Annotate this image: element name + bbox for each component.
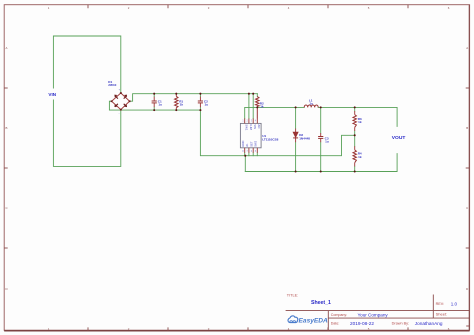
svg-text:B: B: [466, 126, 468, 130]
svg-text:2W10: 2W10: [108, 83, 116, 87]
svg-text:Your Company: Your Company: [358, 312, 389, 317]
svg-text:C: C: [466, 206, 468, 210]
svg-text:1u: 1u: [205, 103, 209, 107]
svg-text:1k: 1k: [358, 120, 362, 124]
svg-text:1k: 1k: [358, 155, 362, 159]
svg-text:2019-08-22: 2019-08-22: [350, 321, 374, 326]
svg-text:AO: AO: [257, 124, 261, 128]
svg-text:Date:: Date:: [331, 321, 340, 325]
svg-text:LT1110CS8: LT1110CS8: [262, 137, 278, 141]
svg-text:EasyEDA: EasyEDA: [299, 317, 329, 324]
svg-text:SW1: SW1: [245, 124, 249, 130]
svg-text:REV:: REV:: [436, 302, 444, 306]
svg-text:A: A: [466, 46, 468, 50]
svg-text:A: A: [6, 46, 8, 50]
svg-text:VOUT: VOUT: [392, 135, 406, 141]
svg-text:1k: 1k: [180, 103, 184, 107]
svg-text:Company:: Company:: [331, 313, 347, 317]
svg-text:B: B: [6, 126, 8, 130]
svg-text:D: D: [5, 287, 7, 291]
svg-text:Drawn By:: Drawn By:: [392, 321, 410, 325]
svg-text:Sheet:: Sheet:: [436, 312, 448, 317]
svg-text:GND: GND: [241, 141, 245, 147]
svg-text:Sheet_1: Sheet_1: [311, 300, 331, 306]
svg-text:1k: 1k: [260, 105, 264, 109]
svg-text:D: D: [466, 287, 468, 291]
svg-text:1u: 1u: [325, 140, 329, 144]
svg-text:VIN: VIN: [253, 124, 257, 129]
svg-text:JonathanAng: JonathanAng: [415, 321, 443, 326]
svg-text:1N4448: 1N4448: [299, 136, 310, 140]
svg-text:VIN: VIN: [48, 92, 56, 97]
svg-text:C: C: [5, 206, 7, 210]
svg-text:1u: 1u: [158, 103, 162, 107]
svg-text:1u: 1u: [309, 101, 313, 105]
svg-text:SW2: SW2: [253, 140, 257, 146]
svg-text:A1: A1: [245, 143, 249, 147]
svg-text:TITLE:: TITLE:: [287, 293, 298, 297]
svg-text:SET: SET: [249, 141, 253, 147]
svg-text:ILIM: ILIM: [249, 124, 253, 130]
svg-text:-: -: [119, 112, 120, 115]
svg-text:1.0: 1.0: [451, 301, 458, 306]
